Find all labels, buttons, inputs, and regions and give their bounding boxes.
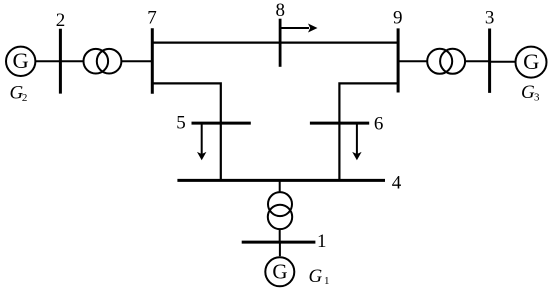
svg-text:8: 8: [275, 0, 285, 21]
svg-text:1: 1: [317, 231, 327, 252]
svg-text:7: 7: [147, 7, 157, 28]
svg-text:3: 3: [485, 8, 495, 29]
svg-text:1: 1: [324, 275, 330, 287]
svg-text:G: G: [12, 48, 28, 73]
svg-text:5: 5: [176, 113, 186, 134]
svg-text:G: G: [309, 266, 323, 287]
svg-text:9: 9: [393, 8, 403, 29]
svg-text:2: 2: [56, 10, 66, 31]
svg-text:6: 6: [374, 114, 384, 135]
svg-text:3: 3: [534, 91, 540, 103]
svg-text:G: G: [272, 260, 287, 284]
svg-text:4: 4: [392, 173, 402, 194]
svg-text:2: 2: [22, 92, 28, 104]
svg-text:G: G: [523, 49, 539, 74]
svg-text:G: G: [521, 82, 535, 103]
